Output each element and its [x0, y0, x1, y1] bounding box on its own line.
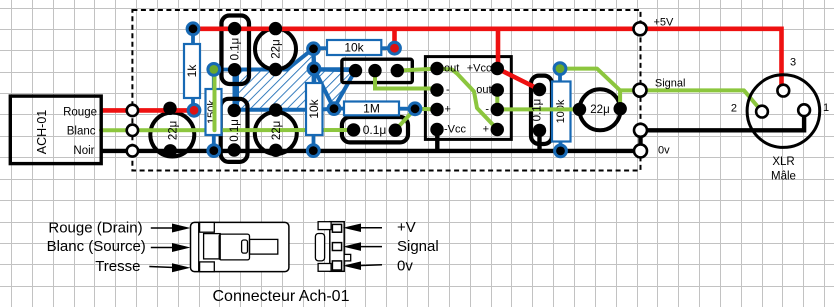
capacitor C1 0.1u body (top left): [222, 16, 250, 85]
node +5V at R1 top: [186, 21, 201, 36]
terminal Noir on board edge: [127, 145, 138, 156]
wire blue R4 10k left lead: [314, 46, 328, 50]
svg-text:22μ: 22μ: [167, 121, 179, 140]
svg-text:Blanc: Blanc: [67, 126, 96, 138]
terminal Signal right edge: [634, 84, 647, 97]
svg-text:Signal: Signal: [655, 78, 686, 90]
wire blue R6 1M left lead: [334, 107, 345, 111]
terminal 0v link upper: [634, 124, 647, 137]
wire green J2 pin2 to U1 inverting input: [375, 71, 437, 90]
capacitor C4 0.1u body (lower left): [221, 99, 248, 162]
arrow Rouge (Drain): [151, 224, 191, 233]
pad J2 pin1: [349, 64, 362, 77]
3-pin plug drawing (bottom right): [315, 222, 350, 272]
pad C3 top: [163, 102, 176, 115]
XLR male connector body: [747, 75, 820, 148]
wire red +Vcc to C7: [498, 69, 540, 90]
node 1M left on pour: [327, 101, 342, 116]
board outline (dashed perfboard boundary): [132, 10, 640, 171]
XLR pin 2: [756, 106, 768, 118]
connector J2 3-pin header body: [342, 59, 412, 82]
svg-text:-: -: [485, 104, 489, 116]
svg-text:3: 3: [790, 57, 796, 69]
pad C1 top: [228, 22, 241, 35]
wire red +5V rail to XLR pin3: [193, 29, 782, 91]
node R5 bottom on 0v: [306, 143, 321, 158]
svg-text:0v: 0v: [397, 258, 413, 275]
node R3 bottom on 0v: [206, 143, 221, 158]
resistor R6 1M: [344, 102, 399, 116]
terminal Blanc on board edge: [127, 125, 138, 136]
wire blue R7 100k bottom lead: [559, 141, 563, 151]
svg-text:+5V: +5V: [654, 17, 675, 29]
pad C8 right: [614, 102, 627, 115]
pad C5 bottom: [269, 144, 282, 157]
pad C3 bottom: [164, 144, 177, 157]
svg-text:22μ: 22μ: [271, 39, 283, 58]
XLR pin 3: [777, 85, 789, 97]
wire green C8 right dot up to signal: [618, 90, 622, 108]
svg-text:+V: +V: [397, 219, 416, 236]
pad C6 left: [347, 123, 360, 136]
node divider mid (pour apex): [306, 41, 321, 56]
pad U1 pin8 +Vcc: [491, 62, 504, 75]
pad C2 bottom: [269, 63, 282, 76]
wire black C7 to 0v rail: [537, 130, 541, 151]
arrow Tresse: [149, 263, 190, 272]
wire blue lead R2 1k vertical: [191, 29, 195, 111]
svg-text:2: 2: [731, 103, 737, 115]
pad C8 left: [573, 103, 586, 116]
wire green J2 pin3 to U1 out (pin1): [397, 69, 437, 71]
pad U1 pin5 +: [491, 123, 504, 136]
pad C2 top: [269, 22, 282, 35]
resistor R7 100k: [552, 82, 571, 142]
wire black 0v to XLR pin1: [641, 110, 805, 151]
svg-text:Signal: Signal: [397, 238, 439, 255]
terminal Rouge on board edge: [127, 105, 138, 116]
svg-text:0.1μ: 0.1μ: [532, 99, 544, 122]
capacitor C3 22u body (left): [150, 113, 194, 157]
node R4 right +5V drop: [387, 41, 402, 56]
wire blue node-to-pour top edge: [214, 68, 238, 72]
wire red drop to U1 +Vcc: [496, 29, 501, 69]
XLR pin 1: [798, 104, 810, 116]
svg-text:XLR: XLR: [772, 156, 794, 168]
svg-text:Rouge (Drain): Rouge (Drain): [48, 220, 142, 237]
svg-text:+Vcc: +Vcc: [467, 63, 492, 75]
svg-text:Rouge: Rouge: [63, 107, 97, 119]
svg-text:0.1μ: 0.1μ: [229, 119, 241, 142]
svg-text:22μ: 22μ: [590, 104, 609, 116]
svg-text:10k: 10k: [307, 98, 321, 118]
svg-text:1: 1: [823, 102, 829, 114]
wire green 150k top to Blanc row (over R3): [213, 70, 217, 131]
pad U1 pin4 -Vcc: [430, 123, 443, 136]
wire green Blanc row from ACH-01 to C6: [101, 128, 354, 132]
pad C4 bottom: [228, 143, 241, 156]
wire black 0v rail: [101, 149, 641, 153]
pad U1 pin2 -: [430, 83, 443, 96]
resistor R1 1k: [184, 44, 200, 98]
terminal 0v right edge: [634, 144, 647, 157]
wire blue divider vertical through R5 10k: [312, 49, 316, 151]
pad J2 pin2: [368, 64, 381, 77]
wire red drop to R4 10k right: [392, 29, 397, 48]
pad C4 top: [228, 104, 241, 117]
wire blue R6 1M right lead: [399, 107, 415, 111]
pad U1 pin7 out: [491, 83, 504, 96]
wire blue pour bottom edge to 1M node: [318, 109, 334, 110]
node pour to J2: [307, 61, 322, 76]
svg-text:ACH-01: ACH-01: [35, 110, 49, 155]
wire green U1 out to U1 + (pin5): [437, 69, 497, 130]
capacitor C7 0.1u body (right of U1): [531, 76, 552, 144]
svg-text:-: -: [446, 84, 450, 96]
op-amp U1 body: [425, 57, 511, 140]
svg-text:1M: 1M: [363, 102, 380, 116]
capacitor C6 0.1u body (horizontal, under 1M): [342, 117, 408, 142]
node bias-net copper pour (hatched blue region): [237, 48, 356, 110]
svg-text:Noir: Noir: [73, 145, 94, 157]
pad J2 pin3: [391, 64, 404, 77]
pad U1 pin1 out: [430, 62, 443, 75]
svg-text:Connecteur Ach-01: Connecteur Ach-01: [213, 288, 350, 305]
svg-text:Blanc (Source): Blanc (Source): [47, 238, 146, 255]
resistor R4 10k horizontal: [327, 40, 381, 55]
wire green signal out: 100k top, C8, to XLR pin2: [560, 69, 762, 112]
svg-text:0.1μ: 0.1μ: [230, 38, 242, 61]
arrow 0v: [343, 261, 382, 270]
wire blue R4 10k right lead: [381, 46, 394, 50]
node 100k bottom on 0v: [553, 144, 568, 159]
svg-text:+: +: [483, 124, 489, 136]
wire blue pour to connector J2 pin1: [314, 68, 356, 73]
svg-text:0.1μ: 0.1μ: [363, 123, 387, 137]
node drain (Rouge) at R1 bottom: [187, 103, 202, 118]
arrow Blanc (Source): [151, 243, 191, 252]
capacitor C8 22u body (output, horizontal): [580, 89, 621, 130]
pad C7 bottom: [533, 124, 546, 137]
node R3 top / signal tap: [206, 62, 221, 77]
capacitor C2 22u body (top): [255, 29, 296, 70]
wire blue R7 100k top lead: [558, 69, 562, 82]
svg-text:out: out: [444, 63, 459, 75]
node 1M right: [408, 101, 423, 116]
pad U1 pin6 -: [491, 103, 504, 116]
pad C1 bottom: [228, 63, 241, 76]
svg-text:out: out: [476, 84, 491, 96]
svg-text:Tresse: Tresse: [95, 258, 140, 275]
svg-text:Mâle: Mâle: [771, 171, 796, 183]
wire green 1M node to U1 + (pin3): [415, 107, 437, 112]
capacitor C5 22u body (lower): [255, 112, 297, 154]
pad U1 pin3 +: [430, 103, 443, 116]
terminal +5V right edge: [634, 22, 647, 35]
ACH-01 package drawing (bottom): [191, 222, 289, 271]
wire green U1 out (pin7) to - (pin6) to C8: [497, 90, 579, 109]
ACH-01 sensor box: [10, 96, 101, 164]
pad C7 top: [533, 83, 546, 96]
wire blue lead R3 150k vertical: [212, 69, 216, 150]
pad C5 top: [269, 103, 282, 116]
svg-text:10k: 10k: [344, 41, 364, 55]
wire black U1 -Vcc to 0v rail: [435, 130, 439, 151]
arrow Signal: [343, 242, 382, 251]
svg-text:0v: 0v: [658, 145, 670, 157]
svg-text:+: +: [445, 104, 451, 116]
arrow +V: [343, 224, 382, 233]
wire blue C1 bottom to C4 top: [232, 70, 236, 111]
svg-text:-Vcc: -Vcc: [444, 124, 467, 136]
wire green 1M node to C6 right: [395, 109, 415, 130]
wire red Rouge from ACH-01: [101, 108, 194, 113]
resistor R3 150k: [206, 89, 222, 135]
svg-text:22μ: 22μ: [271, 121, 283, 140]
node 100k top / signal: [553, 61, 568, 76]
pad C6 right: [389, 124, 402, 137]
svg-text:1k: 1k: [185, 64, 199, 78]
resistor R5 10k vertical: [306, 83, 323, 135]
